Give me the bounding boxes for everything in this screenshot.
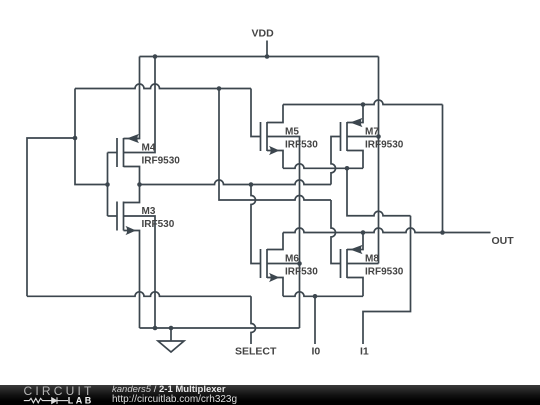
wire VDD left drop to M4 drain	[124, 57, 140, 139]
junction inverter output / M6 gate branch	[249, 182, 254, 187]
wire SELECT left vertical x75	[75, 89, 108, 185]
transistor M8 IRF9530	[341, 245, 363, 278]
wire M8 drain up to OUT row	[347, 233, 363, 250]
wire ground riser x299.5 to M5 body	[267, 137, 300, 329]
junction ground row / M3 body	[153, 326, 158, 331]
svg-text:M3: M3	[142, 206, 156, 217]
wire SELECT branch to x27	[27, 138, 75, 296]
wire inverter out to M7 gate x331 with hop	[331, 137, 341, 185]
wire SELECT to M8 gate via x219 y200	[219, 89, 331, 201]
junction I0 terminal / M6-M8 sources	[313, 294, 318, 299]
junction SELECT vertical / x27 branch	[73, 136, 78, 141]
wire inverter output row y184.5 with hops	[140, 180, 332, 185]
junction OUT row / M5-M7 drain drop	[440, 230, 445, 235]
wire M7 drain up	[347, 105, 363, 123]
wire M6 body lead	[267, 263, 300, 265]
svg-text:IRF9530: IRF9530	[142, 156, 181, 167]
svg-text:SELECT: SELECT	[235, 346, 277, 358]
svg-text:IRF530: IRF530	[285, 267, 318, 278]
svg-text:OUT: OUT	[492, 235, 515, 247]
svg-text:IRF9530: IRF9530	[365, 267, 404, 278]
svg-text:M4: M4	[142, 142, 156, 153]
svg-text:LAB: LAB	[68, 396, 94, 405]
wire M4 gate lead	[108, 152, 118, 154]
wire SELECT terminal drop	[251, 296, 256, 344]
wire M7 body lead	[347, 136, 379, 138]
junction I1 net / M5-M7 sources	[345, 166, 350, 171]
transistor M5 IRF530	[261, 122, 280, 155]
svg-text:IRF9530: IRF9530	[365, 140, 404, 151]
ground symbol	[170, 328, 172, 341]
svg-text:VDD: VDD	[252, 28, 275, 40]
svg-text:M8: M8	[365, 253, 379, 264]
node VDD terminal stub	[266, 41, 268, 57]
wire VDD drop to M4 body	[124, 57, 156, 153]
wire I0 terminal stub	[314, 296, 316, 344]
wire M5 source down to y168.3	[267, 151, 283, 169]
wire inverter out drop to M6 gate x251 with hop	[251, 185, 261, 264]
junction inverter input	[105, 182, 110, 187]
transistor M3 IRF530	[117, 202, 136, 236]
svg-text:M5: M5	[285, 126, 299, 137]
junction ground row / ground symbol	[169, 326, 174, 331]
wire VDD rail	[140, 56, 379, 58]
wire M6 drain up to OUT row	[267, 233, 283, 250]
junction VDD drop / M7 body	[376, 134, 381, 139]
wire SELECT row y88 with hops	[75, 84, 251, 89]
wire M5 drain up to y104.5 row	[267, 105, 283, 123]
svg-text:I1: I1	[360, 346, 369, 358]
svg-text:IRF530: IRF530	[285, 140, 318, 151]
junction VDD terminal / rail	[265, 54, 270, 59]
svg-text:IRF530: IRF530	[142, 219, 175, 230]
junction OUT row / M8 drain	[361, 230, 366, 235]
transistor M6 IRF530	[261, 249, 280, 282]
junction ground riser / M6 body	[297, 261, 302, 266]
wire M3 source down x139.5	[124, 231, 140, 329]
wire I1 riser x347	[347, 168, 411, 215]
junction SELECT row / M8 gate branch	[217, 86, 222, 91]
junction inverter output / M4-M3 drains	[137, 182, 142, 187]
junction VDD rail / M4 body	[153, 54, 158, 59]
wire M3 body down x155	[124, 216, 156, 328]
wire OUT row y232.5 with hops	[283, 228, 491, 233]
wire M4 drain to M3 drain	[124, 167, 140, 203]
wire M8 source down	[347, 278, 363, 297]
wire row y104.5 with hop over VDD drop	[283, 100, 443, 104]
wire M8 body lead	[347, 263, 379, 265]
wire M6 source down to y296.3	[267, 278, 283, 297]
wire VDD right drop to M7/M8 bodies	[378, 57, 380, 264]
wire M3 gate lead	[108, 215, 118, 217]
wire I1 route down x410.5	[363, 216, 411, 344]
svg-text:M6: M6	[285, 253, 299, 264]
junction M5 drain / M7 drain	[361, 102, 366, 107]
wire row y296.3 I0 net with hop	[283, 292, 363, 297]
svg-text:M7: M7	[365, 126, 379, 137]
wire M8 gate drop x331 with hop over OUT row	[331, 200, 341, 264]
footer bar	[0, 385, 540, 405]
wire x442.5 drop to OUT row	[442, 105, 444, 233]
wire SELECT to M5 gate	[251, 89, 261, 137]
wire row y168.3 I1 net with hop	[283, 164, 363, 169]
wire M7 source down	[347, 151, 363, 169]
svg-text:I0: I0	[312, 346, 321, 358]
transistor M7 IRF9530	[341, 118, 363, 151]
wire inverter gate vertical x107.5	[107, 153, 109, 217]
transistor M4 IRF9530	[117, 134, 139, 167]
wire ground row y328	[140, 327, 300, 329]
CircuitLab logo	[0, 385, 110, 405]
wire SELECT bottom row y296 with hops	[27, 292, 251, 297]
